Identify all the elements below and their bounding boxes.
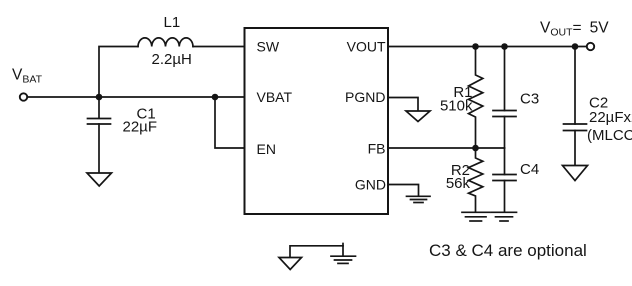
svg-text:C4: C4 [520,161,539,178]
wire VBAT net horizontal [28,96,245,98]
ground triangle PGND [406,111,430,122]
wire L1 to SW pin [193,46,245,48]
svg-text:FB: FB [368,141,386,157]
svg-text:56k: 56k [446,175,471,192]
svg-text:510k: 510k [440,98,473,115]
svg-text:VOUT: VOUT [347,39,386,55]
svg-text:C3: C3 [520,91,539,108]
wire VOUT net [388,46,587,48]
ground triangle legend [279,258,302,270]
svg-text:SW: SW [257,39,280,55]
terminal VBAT input [20,93,27,100]
ground earth below C4 [492,212,517,221]
capacitor C1 [88,97,111,173]
node junction at C1/L1 tap [96,94,103,101]
wire EN tie to VBAT [215,97,245,148]
node junction R1/R2/FB [472,145,479,152]
ground triangle below C1 [87,173,112,186]
svg-text:22µFx2: 22µFx2 [589,109,632,126]
ground earth below R2 [462,212,490,221]
node junction R1 top [472,43,479,50]
wire PGND stub [388,98,418,111]
svg-text:VBAT: VBAT [257,89,293,105]
ground earth legend [331,256,356,263]
wire GND stub [388,185,419,197]
svg-text:EN: EN [257,141,276,157]
wire L1 branch vertical [99,47,138,98]
capacitor C2 [564,47,587,166]
wire FB net [388,147,505,149]
svg-text:(MLCC): (MLCC) [587,127,632,144]
svg-text:22µF: 22µF [123,119,158,136]
wire ground legend bar [290,246,343,257]
svg-text:PGND: PGND [345,89,385,105]
capacitor C4 [493,148,516,212]
IC U1 body [245,28,389,214]
ground triangle below C2 [563,166,588,181]
node junction C2 top [572,43,579,50]
node junction EN tap [212,94,219,101]
resistor R2 [469,148,483,212]
svg-text:L1: L1 [164,14,181,31]
capacitor C3 [493,47,516,149]
node junction C3 top [501,43,508,50]
svg-text:2.2µH: 2.2µH [152,51,192,68]
ground earth at GND pin [407,196,431,202]
terminal VOUT output [587,43,594,50]
inductor L1 [138,38,193,47]
svg-text:C3 & C4 are optional: C3 & C4 are optional [429,241,587,260]
resistor R1 [469,47,483,149]
svg-text:GND: GND [355,177,386,193]
